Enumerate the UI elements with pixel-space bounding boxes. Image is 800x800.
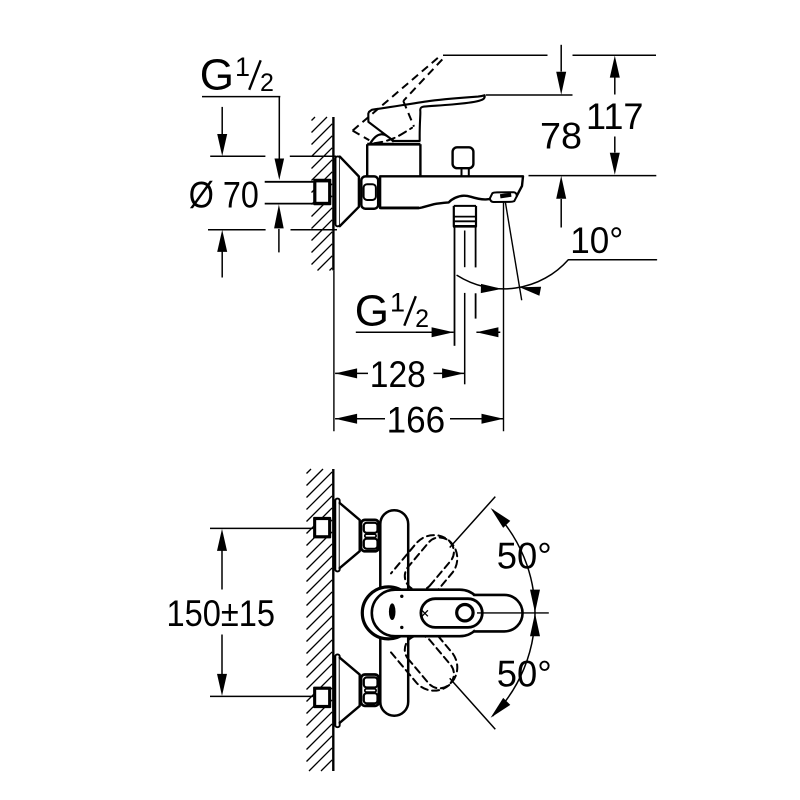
svg-text:G: G bbox=[355, 286, 389, 335]
svg-text:2: 2 bbox=[260, 69, 274, 97]
svg-text:G: G bbox=[200, 51, 234, 100]
svg-text:2: 2 bbox=[415, 305, 429, 333]
svg-text:128: 128 bbox=[370, 354, 426, 395]
svg-text:78: 78 bbox=[540, 116, 582, 157]
svg-text:1: 1 bbox=[390, 288, 405, 318]
svg-text:10°: 10° bbox=[570, 220, 623, 261]
svg-text:1: 1 bbox=[235, 52, 250, 82]
svg-text:117: 117 bbox=[586, 96, 644, 137]
svg-text:166: 166 bbox=[387, 400, 446, 441]
svg-text:50°: 50° bbox=[497, 535, 552, 576]
svg-text:Ø 70: Ø 70 bbox=[189, 175, 259, 216]
svg-text:50°: 50° bbox=[497, 653, 552, 694]
svg-text:150±15: 150±15 bbox=[167, 593, 276, 634]
